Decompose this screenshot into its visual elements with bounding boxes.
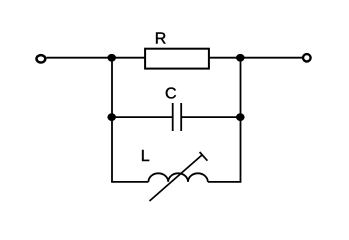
inductor L bbox=[148, 173, 207, 182]
inductor adjustment arrow shaft bbox=[150, 155, 203, 201]
capacitor C bbox=[173, 103, 182, 131]
svg-text:L: L bbox=[141, 148, 150, 165]
inductor adjustment arrow T-bar bbox=[200, 152, 208, 161]
node junction middle-right bbox=[236, 113, 245, 121]
wire bottom-right bbox=[208, 181, 242, 183]
wire top-left bbox=[47, 57, 113, 59]
node junction top-left bbox=[107, 54, 116, 62]
wire to capacitor left bbox=[112, 116, 173, 118]
wire top-right bbox=[241, 57, 303, 59]
svg-text:C: C bbox=[165, 86, 177, 103]
terminal left bbox=[37, 55, 46, 62]
wire left vertical bbox=[111, 58, 113, 182]
svg-text:R: R bbox=[155, 31, 167, 48]
wire right vertical bbox=[240, 58, 242, 182]
wire capacitor to junction middle-right bbox=[181, 116, 240, 118]
node junction middle-left bbox=[107, 113, 116, 121]
node junction top-right bbox=[236, 54, 245, 62]
resistor R bbox=[145, 49, 209, 69]
wire to resistor left bbox=[112, 57, 145, 59]
terminal right bbox=[303, 54, 311, 61]
wire bottom-left bbox=[111, 181, 148, 183]
wire resistor to junction top-right bbox=[209, 57, 241, 59]
